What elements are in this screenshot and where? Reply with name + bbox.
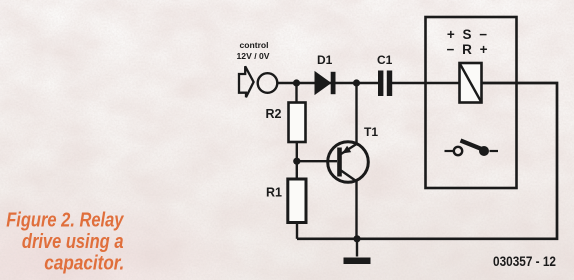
svg-text:drive using a: drive using a	[22, 230, 124, 253]
svg-text:Figure 2. Relay: Figure 2. Relay	[6, 208, 125, 231]
svg-text:D1: D1	[317, 53, 333, 67]
svg-text:030357 - 12: 030357 - 12	[493, 254, 556, 269]
svg-text:T1: T1	[364, 125, 378, 139]
svg-text:12V / 0V: 12V / 0V	[237, 51, 270, 61]
svg-text:capacitor.: capacitor.	[44, 251, 124, 274]
svg-text:+ S −: + S −	[447, 27, 489, 42]
svg-text:R1: R1	[266, 186, 282, 200]
svg-text:− R +: − R +	[446, 42, 489, 57]
svg-text:C1: C1	[377, 53, 393, 67]
svg-text:R2: R2	[266, 107, 282, 121]
svg-text:control: control	[239, 40, 268, 50]
